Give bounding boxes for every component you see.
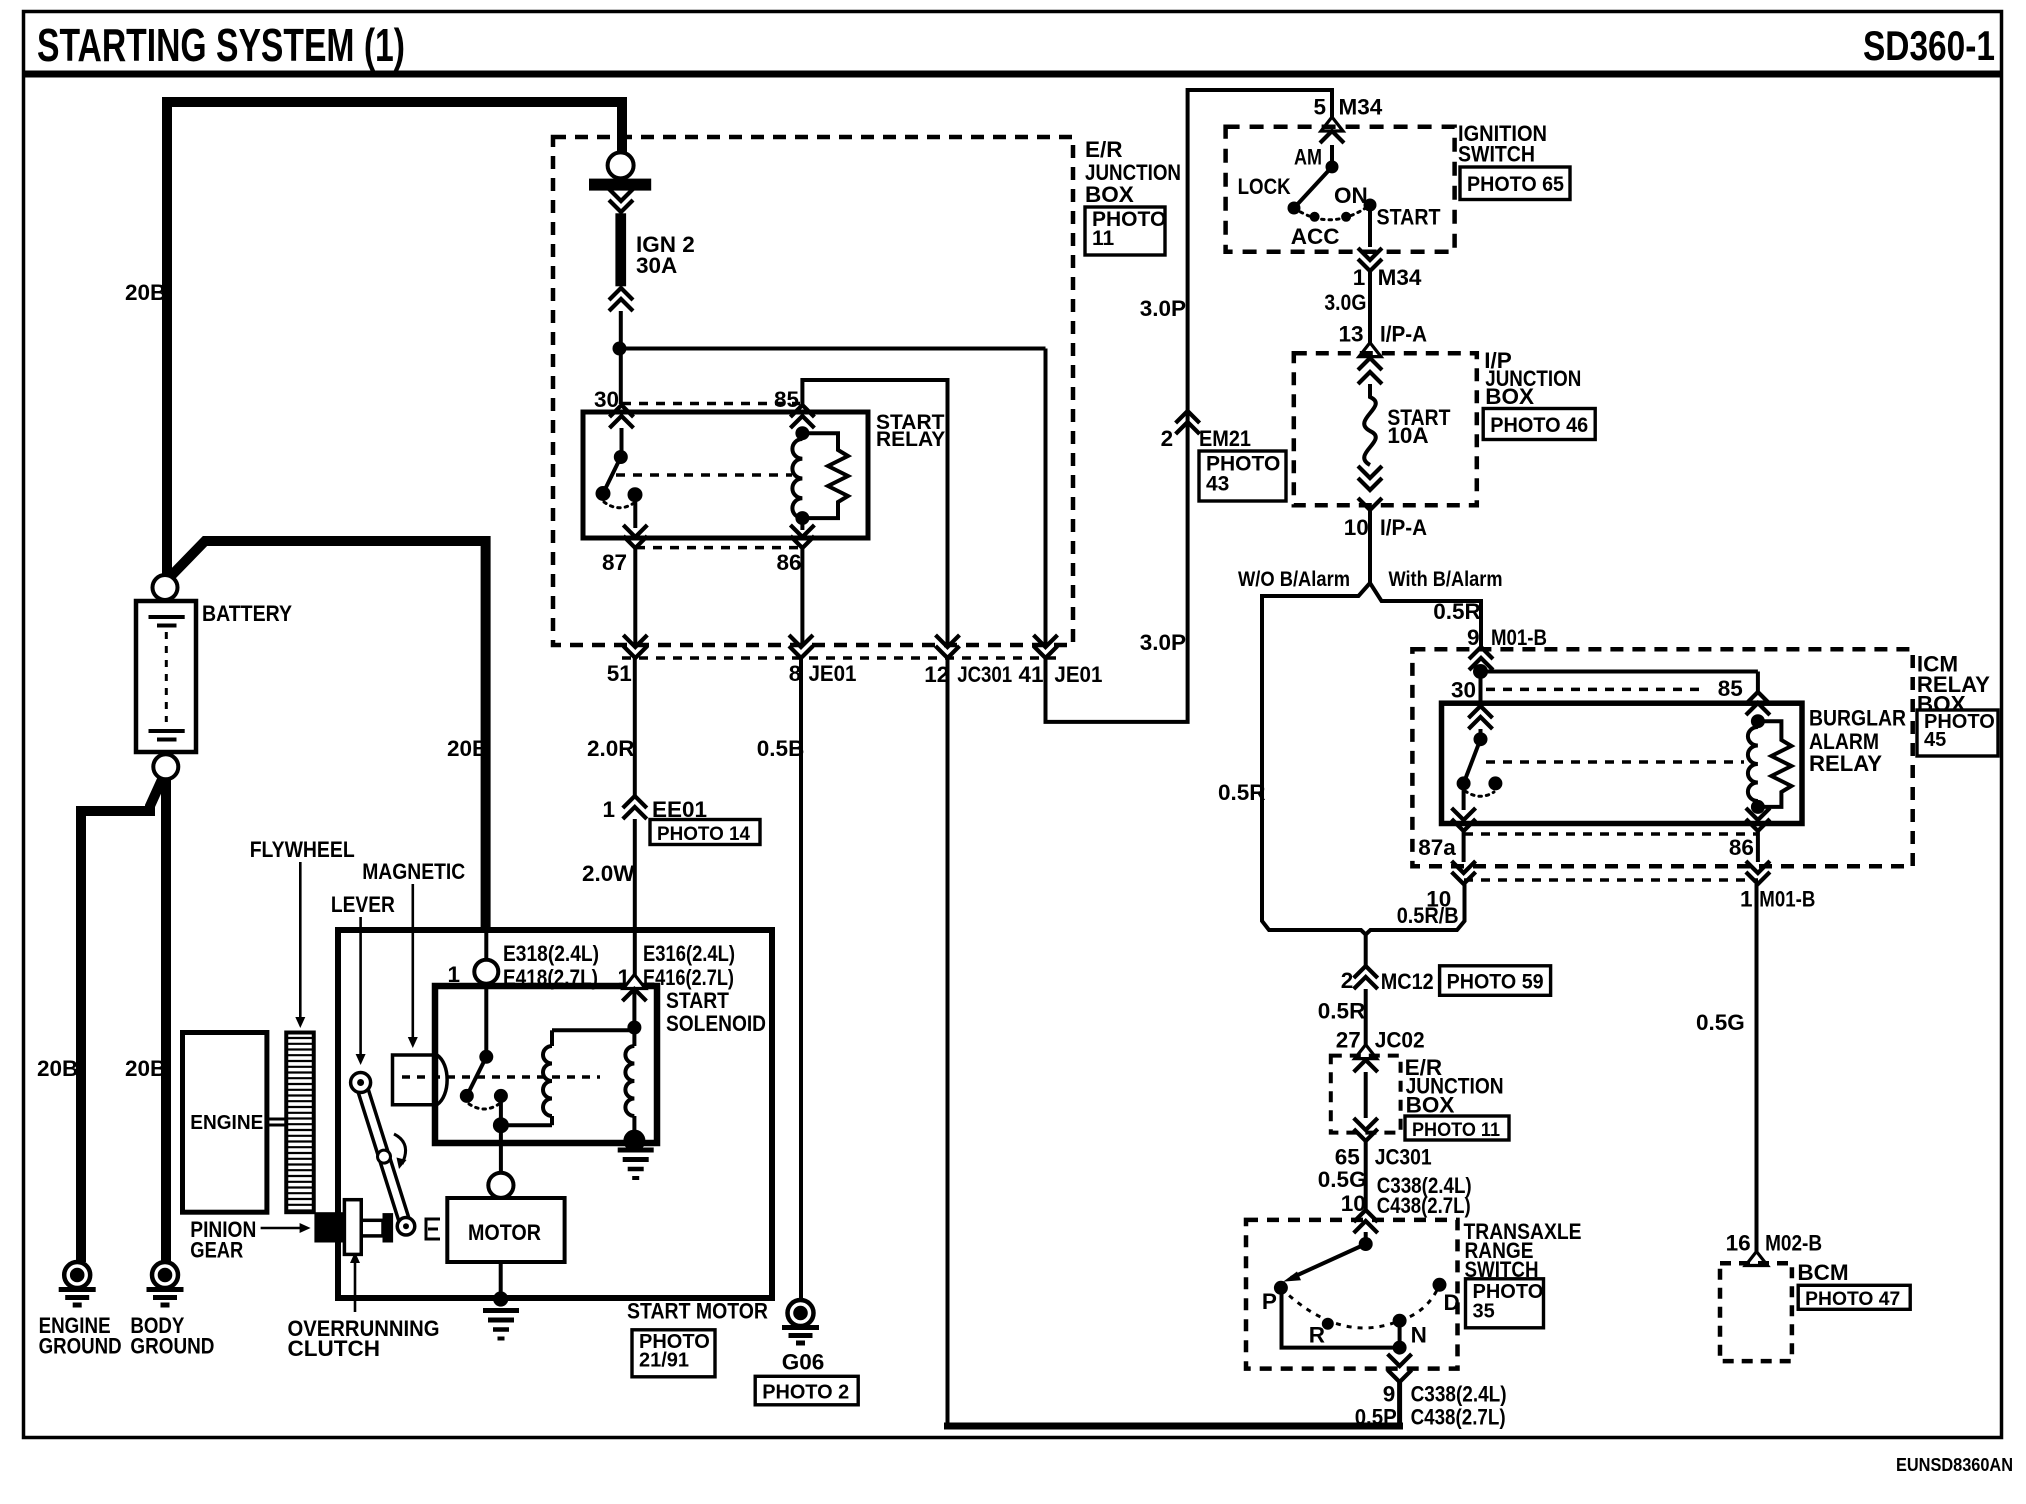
svg-text:0.5R: 0.5R — [1218, 780, 1266, 805]
svg-text:3.0P: 3.0P — [1140, 296, 1186, 321]
svg-text:PHOTO 47: PHOTO 47 — [1805, 1289, 1900, 1310]
svg-text:BATTERY: BATTERY — [202, 601, 292, 626]
svg-text:21/91: 21/91 — [639, 1350, 689, 1372]
svg-text:20B: 20B — [125, 280, 166, 305]
svg-text:JE01: JE01 — [1054, 662, 1102, 687]
svg-text:E418(2.7L): E418(2.7L) — [503, 965, 598, 990]
svg-text:JC02: JC02 — [1375, 1028, 1425, 1053]
svg-text:30: 30 — [1451, 678, 1476, 703]
svg-text:M34: M34 — [1339, 95, 1383, 120]
svg-text:43: 43 — [1206, 473, 1229, 496]
svg-text:16: 16 — [1726, 1231, 1751, 1256]
svg-text:20B: 20B — [447, 736, 488, 761]
svg-text:5: 5 — [1314, 95, 1327, 120]
svg-text:SD360-1: SD360-1 — [1863, 22, 1995, 69]
svg-text:JC301: JC301 — [957, 662, 1012, 687]
svg-text:LEVER: LEVER — [331, 892, 395, 917]
svg-text:87a: 87a — [1418, 835, 1456, 860]
svg-text:BCM: BCM — [1797, 1260, 1848, 1285]
svg-text:51: 51 — [607, 661, 632, 686]
svg-text:85: 85 — [1718, 676, 1743, 701]
svg-text:M01-B: M01-B — [1491, 625, 1547, 650]
svg-text:3.0G: 3.0G — [1324, 290, 1366, 315]
svg-text:PHOTO 11: PHOTO 11 — [1412, 1120, 1500, 1141]
svg-text:JC301: JC301 — [1375, 1144, 1432, 1169]
svg-text:ON: ON — [1334, 183, 1368, 208]
svg-text:PHOTO 65: PHOTO 65 — [1467, 173, 1564, 196]
svg-text:START MOTOR: START MOTOR — [627, 1299, 768, 1324]
svg-text:35: 35 — [1473, 1301, 1495, 1323]
svg-text:BOX: BOX — [1406, 1093, 1455, 1118]
svg-text:STARTING SYSTEM (1): STARTING SYSTEM (1) — [37, 19, 405, 71]
svg-text:MOTOR: MOTOR — [468, 1220, 541, 1245]
svg-text:FLYWHEEL: FLYWHEEL — [250, 837, 355, 862]
svg-text:With B/Alarm: With B/Alarm — [1389, 568, 1503, 591]
svg-text:86: 86 — [777, 550, 802, 575]
svg-text:85: 85 — [774, 387, 799, 412]
svg-text:E318(2.4L): E318(2.4L) — [503, 941, 599, 966]
svg-text:GROUND: GROUND — [39, 1334, 122, 1359]
svg-text:ACC: ACC — [1291, 224, 1340, 249]
svg-text:PHOTO 14: PHOTO 14 — [657, 824, 750, 845]
svg-text:11: 11 — [1092, 227, 1115, 250]
svg-text:1: 1 — [447, 962, 460, 987]
svg-text:E316(2.4L): E316(2.4L) — [643, 941, 735, 966]
svg-text:P: P — [1262, 1289, 1277, 1314]
svg-text:1: 1 — [1353, 265, 1366, 290]
svg-text:0.5R/B: 0.5R/B — [1397, 903, 1459, 928]
svg-text:30A: 30A — [636, 253, 677, 278]
svg-text:JE01: JE01 — [809, 661, 857, 686]
svg-text:R: R — [1309, 1323, 1325, 1348]
svg-text:ENGINE: ENGINE — [190, 1112, 263, 1134]
svg-text:2: 2 — [1341, 968, 1354, 993]
svg-text:LOCK: LOCK — [1238, 174, 1292, 199]
svg-text:41: 41 — [1019, 662, 1044, 687]
svg-text:C438(2.7L): C438(2.7L) — [1411, 1405, 1506, 1430]
svg-text:MC12: MC12 — [1381, 969, 1434, 994]
svg-text:SWITCH: SWITCH — [1458, 142, 1535, 167]
svg-text:65: 65 — [1335, 1144, 1360, 1169]
svg-text:9: 9 — [1467, 625, 1480, 650]
svg-text:0.5B: 0.5B — [757, 736, 805, 761]
svg-text:GROUND: GROUND — [130, 1334, 214, 1359]
svg-text:CLUTCH: CLUTCH — [288, 1336, 380, 1361]
svg-text:10: 10 — [1344, 515, 1369, 540]
svg-text:20B: 20B — [125, 1056, 166, 1081]
svg-text:M02-B: M02-B — [1765, 1231, 1822, 1256]
svg-text:1: 1 — [1740, 886, 1753, 911]
svg-text:GEAR: GEAR — [190, 1238, 243, 1263]
svg-text:I/P-A: I/P-A — [1380, 515, 1427, 540]
svg-text:RELAY: RELAY — [1809, 751, 1882, 776]
svg-text:EUNSD8360AN: EUNSD8360AN — [1896, 1454, 2013, 1475]
svg-text:W/O B/Alarm: W/O B/Alarm — [1238, 568, 1350, 591]
svg-text:EM21: EM21 — [1199, 426, 1251, 451]
svg-text:30: 30 — [594, 387, 619, 412]
svg-text:D: D — [1444, 1290, 1460, 1315]
svg-text:2: 2 — [1161, 426, 1174, 451]
svg-text:E416(2.7L): E416(2.7L) — [643, 965, 734, 990]
svg-text:86: 86 — [1729, 835, 1754, 860]
svg-text:1: 1 — [602, 797, 615, 822]
svg-text:C438(2.7L): C438(2.7L) — [1377, 1193, 1471, 1218]
svg-text:0.5R: 0.5R — [1318, 999, 1366, 1024]
svg-text:RELAY: RELAY — [876, 428, 945, 451]
svg-text:START: START — [666, 988, 729, 1013]
svg-text:E/R: E/R — [1085, 137, 1123, 162]
svg-text:27: 27 — [1336, 1028, 1361, 1053]
svg-text:10A: 10A — [1387, 423, 1428, 448]
svg-text:45: 45 — [1924, 729, 1946, 751]
svg-text:G06: G06 — [782, 1350, 825, 1375]
svg-text:PHOTO 2: PHOTO 2 — [762, 1381, 849, 1403]
svg-text:BOX: BOX — [1085, 182, 1134, 207]
svg-text:I/P-A: I/P-A — [1380, 322, 1427, 347]
svg-text:START: START — [1377, 204, 1441, 229]
svg-text:M34: M34 — [1378, 265, 1422, 290]
svg-text:2.0W: 2.0W — [582, 861, 635, 886]
svg-text:PHOTO 46: PHOTO 46 — [1490, 414, 1588, 437]
svg-text:N: N — [1411, 1323, 1427, 1348]
svg-text:BURGLAR: BURGLAR — [1809, 705, 1906, 730]
svg-text:BOX: BOX — [1485, 384, 1534, 409]
svg-text:AM: AM — [1294, 145, 1322, 170]
svg-text:3.0P: 3.0P — [1140, 630, 1186, 655]
svg-text:M01-B: M01-B — [1759, 886, 1815, 911]
svg-text:0.5G: 0.5G — [1318, 1167, 1367, 1192]
svg-text:20B: 20B — [37, 1056, 78, 1081]
svg-text:0.5R: 0.5R — [1433, 599, 1481, 624]
svg-text:2.0R: 2.0R — [587, 736, 635, 761]
svg-text:0.5G: 0.5G — [1696, 1010, 1745, 1035]
svg-text:13: 13 — [1339, 322, 1364, 347]
svg-text:87: 87 — [602, 550, 627, 575]
svg-text:0.5P: 0.5P — [1355, 1405, 1397, 1430]
svg-text:PHOTO 59: PHOTO 59 — [1447, 970, 1544, 993]
svg-text:SOLENOID: SOLENOID — [666, 1011, 766, 1036]
svg-text:9: 9 — [1383, 1382, 1396, 1407]
svg-text:C338(2.4L): C338(2.4L) — [1411, 1382, 1507, 1407]
svg-text:MAGNETIC: MAGNETIC — [362, 859, 465, 884]
